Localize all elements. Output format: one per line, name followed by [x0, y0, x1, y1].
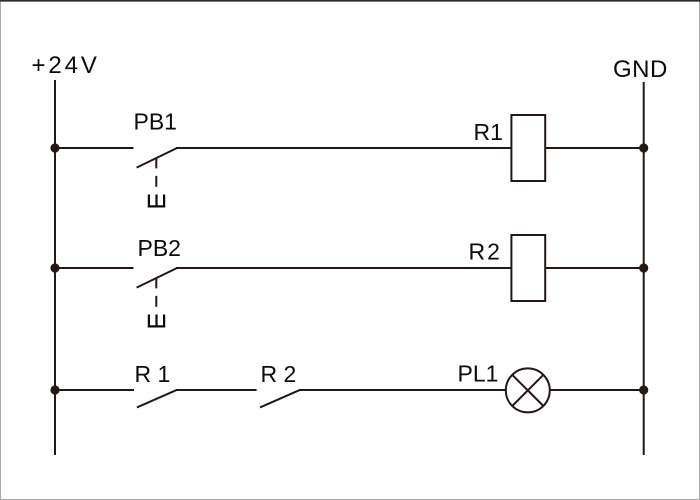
wire rung3 segment d — [550, 389, 644, 391]
relay coil R2 — [511, 235, 545, 301]
pushbutton PB1 NO contact blade — [137, 148, 177, 168]
junction dot rung2 left — [50, 263, 59, 272]
wire: left +24V rail — [54, 80, 56, 455]
svg-text:R1: R1 — [474, 119, 503, 145]
svg-text:R2: R2 — [469, 239, 502, 265]
pushbutton PB2 NO contact blade — [137, 268, 177, 288]
pushbutton PB2 actuator link (dashed) — [155, 278, 157, 314]
svg-text:PL1: PL1 — [458, 361, 499, 387]
junction dot rung1 left — [50, 143, 59, 152]
wire rung1 right segment — [545, 147, 644, 149]
pushbutton PB1 actuator link (dashed) — [155, 158, 157, 194]
junction dot rung3 left — [50, 385, 59, 394]
wire rung1 middle segment — [176, 147, 511, 149]
wire rung3 segment b — [176, 389, 257, 391]
svg-text:PB1: PB1 — [134, 109, 177, 135]
wire rung2 left segment — [55, 267, 134, 269]
relay contact R1 NO blade — [137, 390, 177, 408]
wire: right GND rail — [643, 82, 645, 455]
junction dot rung3 right — [639, 385, 648, 394]
svg-text:+24V: +24V — [32, 52, 100, 79]
junction dot rung2 right — [639, 263, 648, 272]
svg-text:PB2: PB2 — [138, 235, 181, 261]
wire rung1 left segment — [55, 147, 134, 149]
wire rung3 segment c — [299, 389, 505, 391]
wire rung2 middle segment — [176, 267, 511, 269]
svg-text:GND: GND — [613, 56, 668, 83]
wire rung2 right segment — [545, 267, 644, 269]
pushbutton PB1 manual button symbol — [148, 195, 165, 207]
pilot lamp PL1 — [506, 368, 550, 412]
svg-text:R 2: R 2 — [261, 361, 297, 387]
wire rung3 segment a — [55, 389, 134, 391]
svg-text:R 1: R 1 — [135, 361, 171, 387]
junction dot rung1 right — [639, 143, 648, 152]
relay contact R2 NO blade — [260, 390, 300, 408]
pushbutton PB2 manual button symbol — [148, 315, 165, 327]
relay coil R1 — [511, 115, 545, 181]
